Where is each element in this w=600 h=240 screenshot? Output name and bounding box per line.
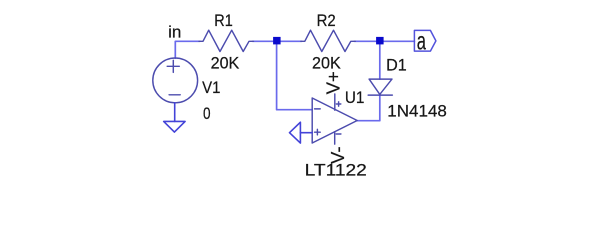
svg-text:1N4148: 1N4148	[387, 101, 447, 120]
resistor R1	[199, 30, 254, 51]
flag a	[414, 30, 436, 51]
svg-text:U1: U1	[345, 88, 365, 107]
svg-text:a: a	[417, 28, 426, 55]
wire	[379, 44, 381, 79]
wire	[174, 103, 176, 122]
svg-text:D1: D1	[386, 55, 407, 74]
voltage source V1	[153, 58, 198, 103]
svg-text:V+: V+	[323, 71, 344, 94]
svg-text:in: in	[168, 23, 181, 42]
wire	[253, 40, 302, 42]
ground	[164, 121, 185, 132]
svg-text:V1: V1	[202, 79, 220, 97]
ground	[290, 122, 301, 143]
svg-text:R1: R1	[214, 12, 232, 30]
svg-text:20K: 20K	[211, 53, 240, 72]
wire	[277, 44, 313, 110]
wire	[354, 40, 414, 42]
wire	[300, 132, 312, 134]
resistor R2	[301, 30, 356, 51]
svg-text:V-: V-	[327, 147, 348, 164]
wire	[175, 41, 200, 58]
svg-text:R2: R2	[317, 12, 336, 30]
node A	[273, 37, 281, 45]
svg-text:20K: 20K	[312, 53, 341, 72]
wire	[357, 95, 380, 121]
op-amp U1	[312, 94, 357, 144]
diode D1	[368, 79, 392, 95]
svg-text:0: 0	[203, 105, 211, 124]
node B	[376, 37, 384, 45]
